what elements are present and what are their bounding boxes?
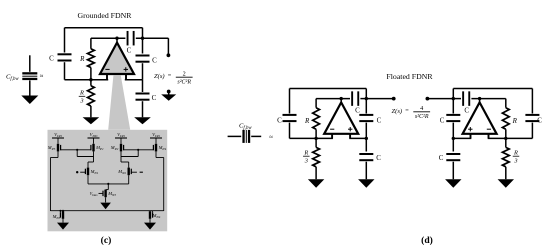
- svg-text:R: R: [513, 150, 518, 157]
- svg-text:R: R: [512, 117, 518, 125]
- svg-text:=: =: [405, 107, 409, 114]
- svg-text:Z(s): Z(s): [392, 108, 403, 115]
- svg-text:3: 3: [79, 98, 83, 105]
- svg-text:R: R: [304, 117, 310, 125]
- svg-text:C: C: [152, 57, 157, 65]
- svg-text:(d): (d): [421, 235, 433, 246]
- svg-text:≈: ≈: [40, 73, 44, 80]
- svg-text:3: 3: [513, 157, 517, 164]
- svg-text:C: C: [439, 154, 444, 162]
- svg-text:(c): (c): [101, 235, 112, 246]
- svg-text:4: 4: [420, 105, 423, 112]
- svg-text:C: C: [355, 107, 360, 115]
- svg-text:C: C: [464, 107, 469, 115]
- svg-text:2: 2: [183, 70, 186, 77]
- svg-text:s²C²R: s²C²R: [415, 114, 429, 120]
- svg-text:=: =: [168, 73, 172, 80]
- svg-text:C: C: [377, 116, 382, 124]
- svg-text:Z(s): Z(s): [154, 73, 165, 80]
- svg-text:C: C: [376, 154, 381, 162]
- svg-text:Floated FDNR: Floated FDNR: [386, 72, 433, 81]
- svg-text:C: C: [277, 116, 282, 124]
- svg-text:Grounded FDNR: Grounded FDNR: [78, 11, 133, 20]
- svg-text:C: C: [127, 47, 132, 55]
- svg-text:R: R: [303, 150, 308, 157]
- svg-text:≈: ≈: [269, 134, 273, 141]
- svg-text:C: C: [537, 116, 542, 124]
- svg-text:C: C: [49, 55, 54, 63]
- svg-text:3: 3: [304, 157, 308, 164]
- svg-text:s²C²R: s²C²R: [177, 79, 191, 85]
- svg-text:R: R: [79, 90, 84, 97]
- svg-text:C: C: [152, 94, 157, 102]
- svg-text:C: C: [440, 116, 445, 124]
- svg-text:R: R: [79, 55, 85, 63]
